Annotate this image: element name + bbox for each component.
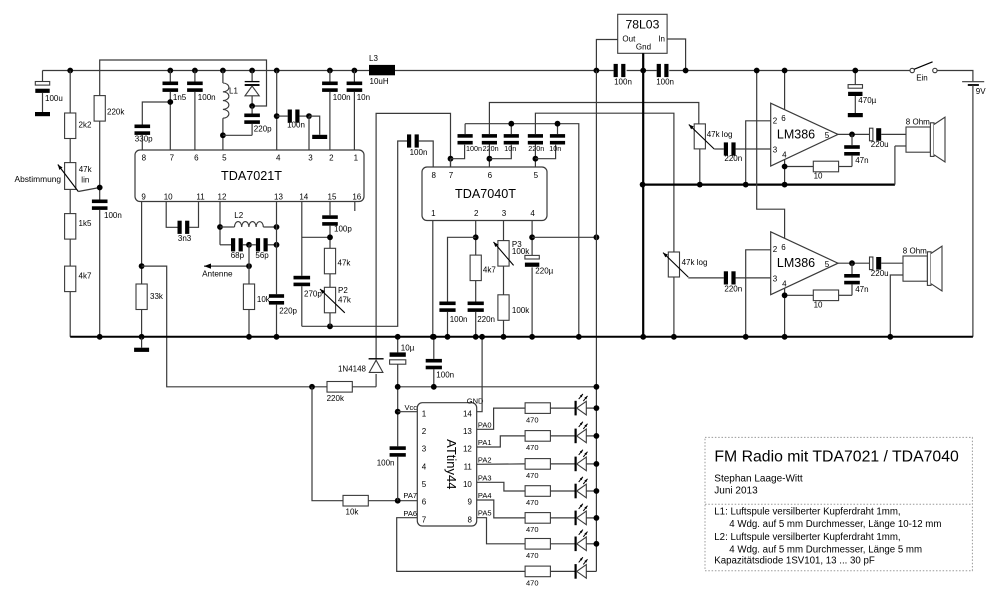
wire 220u to speaker1 — [881, 133, 906, 135]
junction 3V/ATtiny supply — [594, 384, 600, 390]
wire TDA7040 pin 1 to ground rail — [432, 221, 434, 337]
wire antenna junction down from 68p/56p — [248, 245, 250, 284]
capacitor 100p — [322, 215, 352, 233]
junction rail/L1 — [220, 68, 226, 74]
capacitor 1n5 — [163, 82, 187, 103]
junction 1n5/330p — [167, 99, 173, 105]
junction pin12/L2 — [217, 224, 223, 230]
wire 10 to pin4 — [785, 166, 814, 168]
wire 100n to pin3 net — [299, 115, 309, 117]
wire TDA7040 pin 3 to P3 — [503, 221, 505, 241]
title text — [714, 448, 959, 496]
junction 220k/10k — [309, 384, 315, 390]
capacitor 47n (amp2) — [844, 263, 868, 295]
junction pin6/9V rail — [782, 68, 788, 74]
ground bar under 470µ — [848, 113, 863, 117]
wire 220k junction down to 10k — [312, 387, 343, 501]
resistor 470 (row 6) — [525, 539, 550, 561]
svg-text:4: 4 — [530, 209, 535, 218]
wire pot2 bottom to ground rail — [673, 277, 675, 337]
junction pin4-2/10 — [782, 292, 788, 298]
junction pin2 gnd/gnd bus — [743, 182, 749, 188]
svg-text:100n: 100n — [104, 211, 122, 220]
junction pin4-2/ground rail — [782, 334, 788, 340]
resistor 470 (row 7) — [525, 566, 550, 588]
svg-text:Ein: Ein — [916, 73, 928, 82]
ground bar below rail — [134, 348, 149, 352]
potentiometer P2 47k — [320, 286, 352, 313]
svg-text:220n: 220n — [483, 144, 499, 153]
wire 100k to ground rail — [503, 320, 505, 337]
wire 3V vertical distribution — [595, 71, 597, 572]
wire pin4 to 3V line — [532, 236, 596, 238]
wire pin7 junction to cap1 — [451, 145, 465, 159]
wire PA2 pin11 to resistor — [477, 463, 525, 465]
junction 220µ/ground rail — [529, 334, 535, 340]
wire PA5 pin8 to resistor — [477, 518, 525, 544]
wire resistor to LED (row 6) — [550, 543, 574, 545]
svg-text:3: 3 — [502, 209, 507, 218]
svg-text:12: 12 — [463, 445, 472, 454]
capacitor 220n (cap2) — [482, 134, 499, 153]
wire +3V rail from 100u to first inline 100n — [43, 70, 614, 72]
wire 4k7 to 220n — [475, 281, 477, 302]
svg-text:13: 13 — [463, 427, 472, 436]
capacitor 68p — [231, 238, 245, 260]
wire PA0 pin13 to resistor — [477, 408, 525, 429]
junction 68p/56p/antenna — [246, 242, 252, 248]
junction pin2/100n link — [473, 234, 479, 240]
wire Vcc pin 1 — [398, 411, 418, 413]
capacitor 10n — [347, 82, 370, 103]
junction rail/2k2 — [67, 68, 73, 74]
svg-text:220u: 220u — [871, 269, 889, 278]
svg-text:100k: 100k — [512, 306, 530, 315]
svg-text:15: 15 — [328, 193, 337, 202]
wire main ground rail — [70, 336, 973, 338]
svg-text:270p: 270p — [304, 290, 322, 299]
svg-text:470: 470 — [526, 579, 539, 588]
svg-text:10: 10 — [814, 172, 823, 181]
junction 3V line/pin4 — [594, 234, 600, 240]
wire rail to cap 100n — [329, 71, 331, 82]
wire pot1 wiper to 220n — [714, 148, 724, 150]
svg-text:3: 3 — [422, 445, 427, 454]
svg-text:47k: 47k — [79, 165, 93, 174]
svg-text:PA2: PA2 — [478, 456, 492, 465]
TDA7021T pin numbers — [141, 154, 361, 202]
svg-text:220n: 220n — [477, 315, 495, 324]
svg-text:100n: 100n — [287, 121, 305, 130]
svg-text:220n: 220n — [724, 154, 742, 163]
wire cap 100n to pin — [194, 92, 196, 150]
svg-text:14: 14 — [463, 409, 472, 418]
junction pin5/caps — [533, 156, 539, 162]
wire cap2 bottom to pin6 — [488, 145, 490, 168]
svg-text:PA3: PA3 — [478, 473, 492, 482]
junction Gnd/ground rail — [640, 334, 646, 340]
wire 10µ to Vcc net — [397, 364, 399, 446]
svg-text:6: 6 — [781, 114, 786, 123]
capacitor 100n (pin3-pin4) — [287, 110, 305, 130]
junction pin4/Vcc link — [529, 234, 535, 240]
wire rail to TDA7021 pin 4 — [276, 71, 278, 151]
wire LM386-2 pin2 to ground rail — [746, 250, 771, 337]
capacitor 220n (pin2) — [468, 302, 495, 325]
resistor 33k — [136, 284, 164, 310]
svg-text:8 Ohm: 8 Ohm — [903, 246, 927, 255]
svg-text:7: 7 — [170, 154, 175, 163]
op-amp U4 LM386 (amp2) — [771, 232, 838, 295]
wire TDA7021 pin 14 down — [301, 202, 303, 276]
capacitor 100n (inline right) — [656, 64, 674, 87]
wire 47n to 10 resistor — [838, 166, 852, 168]
wire 56p to pin13 net — [268, 244, 277, 246]
wire rail to cap 1n5 — [169, 71, 171, 82]
wire resistor to LED (row 5) — [550, 517, 574, 519]
svg-text:7: 7 — [449, 171, 454, 180]
junction LED row 5/3V line — [594, 515, 600, 521]
junction Out/rail — [594, 68, 600, 74]
junction wiper/220k/100n — [97, 185, 103, 191]
wire cap2 top to audio L — [489, 103, 698, 135]
svg-text:16: 16 — [352, 193, 361, 202]
svg-text:4 Wdg. auf 5 mm Durchmesser, L: 4 Wdg. auf 5 mm Durchmesser, Länge 5 mm — [729, 545, 922, 556]
svg-text:3n3: 3n3 — [178, 234, 192, 243]
svg-text:L1: L1 — [229, 87, 238, 96]
resistor 470 (row 1) — [525, 403, 550, 425]
junction Gnd/rail crossing — [640, 68, 646, 74]
svg-text:11: 11 — [196, 193, 205, 202]
svg-text:470: 470 — [526, 443, 539, 452]
svg-text:220u: 220u — [871, 140, 889, 149]
svg-text:470: 470 — [526, 415, 539, 424]
wire LED to 3V line (row 4) — [586, 490, 596, 492]
junction LED row 4/3V line — [594, 488, 600, 494]
svg-text:1n5: 1n5 — [173, 93, 187, 102]
resistor 2k2 — [65, 113, 92, 139]
wire GND pin 14 to ground rail — [477, 337, 482, 412]
junction ground rail/100n — [431, 334, 437, 340]
wire ground rail to 100n (ATtiny) — [433, 337, 435, 359]
svg-text:10n: 10n — [504, 144, 516, 153]
svg-text:GND: GND — [467, 397, 484, 406]
wire 47k to P2 — [329, 274, 331, 288]
junction pin4/100n — [274, 113, 280, 119]
svg-text:ATtiny44: ATtiny44 — [444, 439, 459, 489]
svg-text:4: 4 — [276, 154, 281, 163]
wire LED to 3V line (row 5) — [586, 517, 596, 519]
capacitor 100n (tuning filter) — [92, 200, 122, 221]
wire 220n to LM386-2 pin3 — [735, 277, 770, 279]
speaker 8 Ohm (amp1) — [906, 117, 945, 162]
svg-text:47n: 47n — [855, 156, 868, 165]
wire pin9 junction to feedback net — [142, 266, 327, 387]
svg-text:7: 7 — [422, 515, 427, 524]
wire 100n to 3V line — [433, 369, 435, 387]
junction cap3/gnd line — [508, 121, 514, 127]
svg-text:78L03: 78L03 — [625, 18, 659, 32]
op-amp IC U1 TDA7021T box — [135, 150, 364, 202]
wire junction to 56p — [249, 244, 256, 246]
varicap diode 1SV101 — [245, 71, 260, 107]
LED D1 — [575, 394, 588, 416]
svg-text:10: 10 — [164, 193, 173, 202]
svg-text:9: 9 — [141, 193, 146, 202]
wire speaker1 return — [895, 146, 906, 185]
junction rail/100n@194.9 — [192, 68, 198, 74]
svg-text:33k: 33k — [150, 292, 164, 301]
wire pin4 junction to 100n — [277, 115, 288, 117]
svg-text:47k: 47k — [338, 259, 352, 268]
svg-text:11: 11 — [464, 462, 473, 471]
svg-text:1: 1 — [422, 409, 427, 418]
svg-text:9: 9 — [467, 498, 472, 507]
junction speaker2 return/ground rail — [887, 334, 893, 340]
wire rail to cap 100n — [194, 71, 196, 82]
wire 100p to 47k — [329, 226, 331, 249]
svg-text:68p: 68p — [231, 251, 245, 260]
wire PA1 pin12 to resistor — [477, 436, 525, 447]
op-amp U3 LM386 (amp1) — [771, 103, 838, 166]
junction gnd bus/78L03 gnd — [640, 182, 646, 188]
svg-text:6: 6 — [422, 498, 427, 507]
junction Vcc pin — [395, 409, 401, 415]
junction ground rail/10µ — [395, 334, 401, 340]
wire 10k to ground rail — [248, 310, 250, 337]
wire P2 to bottom junction — [329, 313, 331, 327]
wire cap 10n to pin — [353, 92, 355, 150]
junction 220p/ground rail — [274, 334, 280, 340]
svg-text:4: 4 — [782, 280, 787, 289]
svg-text:3: 3 — [773, 146, 778, 155]
svg-text:220p: 220p — [279, 307, 297, 316]
wire LM386-1 pin6 to 9V rail — [784, 71, 786, 110]
svg-text:2: 2 — [773, 245, 778, 254]
svg-text:8: 8 — [142, 154, 147, 163]
svg-text:TDA7040T: TDA7040T — [455, 187, 516, 201]
svg-text:4k7: 4k7 — [79, 272, 92, 281]
svg-text:8: 8 — [467, 515, 472, 524]
svg-text:470: 470 — [526, 498, 539, 507]
wire cap 1n5 to pin — [169, 92, 171, 150]
svg-text:L2: Luftspule versilberter Kup: L2: Luftspule versilberter Kupferdraht 1… — [714, 532, 900, 543]
junction pin2-2/ground rail — [743, 334, 749, 340]
svg-text:L1: Luftspule versilberter Kup: L1: Luftspule versilberter Kupferdraht 1… — [714, 507, 900, 518]
wire resistor to LED (row 2) — [550, 435, 574, 437]
svg-text:56p: 56p — [255, 251, 269, 260]
wire pin6 junction to cap3 — [489, 145, 511, 159]
LED D6 — [575, 530, 588, 552]
wire 330p to pin 8 — [141, 135, 143, 150]
svg-text:1N4148: 1N4148 — [338, 365, 367, 374]
junction PA7/100n — [395, 498, 401, 504]
wire 100n to ground rail — [447, 312, 449, 337]
capacitor 100n — [322, 82, 350, 103]
wire PA6 pin7 to resistor — [397, 518, 525, 572]
capacitor C 100u electrolytic — [35, 71, 62, 113]
junction pin9/tuning feedback — [139, 263, 145, 269]
wire 270p to bottom net — [301, 286, 303, 326]
svg-text:Juni 2013: Juni 2013 — [714, 486, 758, 497]
svg-text:PA0: PA0 — [478, 420, 492, 429]
notes text — [714, 507, 941, 567]
svg-text:Stephan Laage-Witt: Stephan Laage-Witt — [714, 473, 803, 484]
wire 9V segment from inline 100n to switch — [669, 70, 910, 72]
junction 100n/3V line — [431, 384, 437, 390]
wire cap 100n to pin — [329, 92, 331, 150]
svg-text:FM Radio mit TDA7021 / TDA7040: FM Radio mit TDA7021 / TDA7040 — [714, 448, 959, 465]
svg-text:5: 5 — [222, 154, 227, 163]
TDA7040T pin numbers — [431, 171, 539, 218]
wire resistor to LED (row 1) — [550, 407, 574, 409]
svg-text:100n: 100n — [450, 315, 468, 324]
svg-text:In: In — [658, 35, 665, 44]
wire cap4 top to audio R — [535, 113, 674, 252]
potentiometer 47k log (amp1) — [689, 124, 733, 149]
wire speaker2 return — [890, 275, 903, 337]
resistor 470 (row 5) — [525, 513, 550, 535]
wire ground stub — [141, 337, 143, 348]
resistor 470 (row 2) — [525, 431, 550, 453]
svg-text:10n: 10n — [549, 144, 561, 153]
wire 68p to antenna junction — [243, 244, 249, 246]
svg-text:220k: 220k — [107, 108, 125, 117]
resistor 10 (amp2) — [813, 290, 838, 309]
wire TDA7040 pin 7 — [450, 159, 452, 167]
svg-text:PA1: PA1 — [478, 438, 492, 447]
wire 220n to LM386 pin3 — [735, 148, 770, 150]
wire amp ground bus thick — [643, 184, 895, 186]
junction pin3/100n — [306, 113, 312, 119]
junction LED row 3/3V line — [594, 461, 600, 467]
wire L1 junction to 220p — [223, 134, 252, 136]
svg-text:10k: 10k — [257, 295, 271, 304]
capacitor 220u (amp1 out) — [870, 128, 889, 149]
junction In/rail — [683, 68, 689, 74]
wire TDA7021 pin 12 down — [219, 202, 221, 245]
junction rail/pin4 wire — [274, 68, 280, 74]
svg-text:220µ: 220µ — [535, 267, 553, 276]
capacitor 270p — [294, 276, 323, 299]
wire battery to ground rail — [972, 85, 974, 337]
capacitor 220µ (pin4) — [525, 255, 554, 336]
potentiometer 47k lin (Abstimmung) — [15, 163, 93, 192]
wire LED to 3V line (row 6) — [586, 543, 596, 545]
svg-text:9V: 9V — [976, 87, 986, 96]
svg-text:100n: 100n — [377, 459, 395, 468]
junction rail/varicap — [249, 68, 255, 74]
svg-text:14: 14 — [299, 193, 308, 202]
svg-text:100n: 100n — [333, 93, 351, 102]
junction GND/ground rail — [479, 334, 485, 340]
svg-text:1k5: 1k5 — [79, 219, 92, 228]
wire pin12 corner to 68p — [220, 244, 231, 246]
capacitor 220p (varicap) — [244, 106, 272, 135]
resistor 10 (amp1) — [813, 161, 838, 180]
svg-text:100n: 100n — [198, 93, 216, 102]
svg-text:1: 1 — [354, 154, 359, 163]
wire 78L03 Gnd thick — [642, 53, 644, 337]
svg-text:10: 10 — [463, 480, 472, 489]
svg-text:6: 6 — [194, 154, 199, 163]
wire 33k to ground rail — [141, 310, 143, 337]
svg-text:100n: 100n — [410, 148, 428, 157]
LED D4 — [575, 477, 588, 499]
wire 4k7 to ground rail — [69, 292, 71, 337]
capacitor 10n (cap3) — [504, 134, 519, 153]
resistor 220k (PWM) — [327, 382, 353, 403]
wire LM386-1 pin2 to gnd bus — [746, 121, 771, 185]
capacitor 3n3 — [178, 221, 192, 243]
junction 100n/ground rail — [445, 334, 451, 340]
svg-text:5: 5 — [825, 131, 830, 140]
svg-text:PA5: PA5 — [478, 509, 492, 518]
svg-text:8 Ohm: 8 Ohm — [906, 117, 930, 126]
junction rail/10n@354.4 — [352, 68, 358, 74]
svg-text:100p: 100p — [334, 225, 352, 234]
LED D2 — [575, 422, 588, 444]
resistor 1k5 — [65, 214, 92, 240]
speaker 8 Ohm (amp2) — [903, 246, 942, 291]
svg-text:5: 5 — [534, 171, 539, 180]
capacitor 220p (pin13) — [269, 294, 298, 315]
junction pin4/gnd bus — [782, 182, 788, 188]
svg-text:100n: 100n — [466, 144, 482, 153]
wire ground rail to 10µ — [397, 337, 399, 353]
wire pin5 junction to cap5 — [535, 145, 555, 159]
wire 78L03 In to rail — [667, 39, 686, 71]
svg-text:5: 5 — [422, 480, 427, 489]
svg-text:12: 12 — [218, 193, 227, 202]
junction P2 bottom — [327, 323, 333, 329]
junction rail/100n@329.9 — [327, 68, 333, 74]
capacitor 10n (cap5) — [549, 134, 565, 153]
capacitor 470µ — [848, 71, 877, 114]
wire LED to 3V line (row 3) — [586, 463, 596, 465]
wire resistor to LED (row 4) — [550, 490, 574, 492]
junction LED row 1/3V line — [594, 405, 600, 411]
wire caps gnd line — [465, 124, 579, 337]
svg-text:100n: 100n — [656, 78, 674, 87]
svg-text:lin: lin — [81, 176, 89, 185]
wire pin3 net to ground bar — [309, 116, 320, 135]
wire LM386-1 pin5 out — [838, 133, 870, 135]
inductor L3 10uH — [369, 54, 395, 86]
wire LM386-2 pin6 supply — [757, 71, 785, 239]
wire pin14 to pin15 link — [302, 236, 330, 238]
svg-text:Out: Out — [622, 35, 636, 44]
junction cap5/gnd line — [555, 121, 561, 127]
resistor 220k — [94, 96, 125, 122]
capacitor 56p — [255, 238, 269, 260]
resistor 470 (row 3) — [525, 459, 550, 481]
wire pot to 1k5 — [69, 189, 71, 213]
wire pot2 wiper to 220n — [688, 277, 724, 279]
svg-text:8: 8 — [431, 171, 436, 180]
wire 3V to ATtiny supply — [398, 386, 597, 388]
svg-text:3: 3 — [308, 154, 313, 163]
wire rail to 2k2 — [69, 71, 71, 114]
wire pot wiper to 100n junction — [78, 188, 99, 192]
title box dotted border — [705, 437, 972, 570]
resistor 10k (antenna) — [243, 284, 270, 310]
svg-text:220n: 220n — [724, 285, 742, 294]
svg-text:L3: L3 — [369, 54, 378, 63]
junction LED row 6/3V line — [594, 541, 600, 547]
svg-text:5: 5 — [825, 260, 830, 269]
wire cap4 bottom to pin5 — [534, 145, 536, 168]
